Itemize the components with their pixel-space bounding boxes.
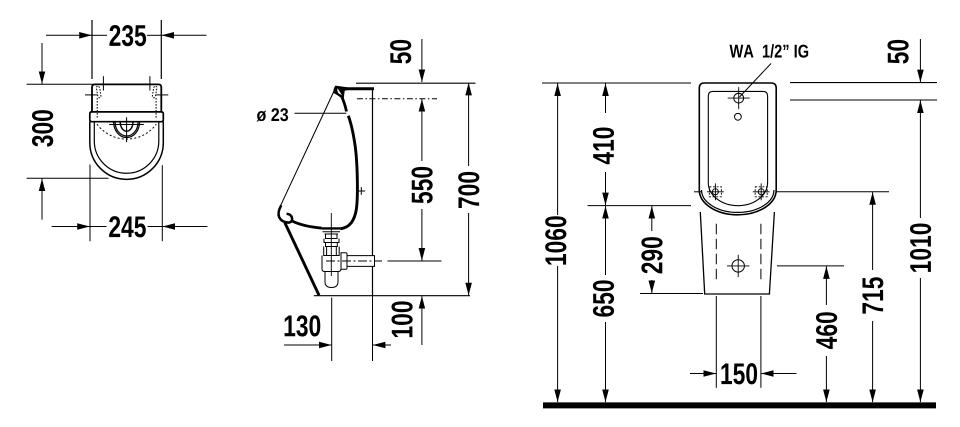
dim 235 arrow right (162, 34, 207, 36)
dim 235 inner line left (92, 34, 107, 36)
water inlet cross ticks (728, 87, 750, 109)
wall line (372, 89, 374, 296)
dim 715 arrow top (872, 192, 874, 270)
dim 50 label (right) (887, 40, 908, 64)
dim 245 inner line right (148, 226, 163, 228)
siphon lower cup (325, 272, 338, 288)
siphon flange lines (323, 232, 341, 234)
drain access cross ticks (727, 255, 749, 277)
top reference line right segment (790, 82, 937, 84)
mounting hole right ticks (753, 183, 770, 200)
bowl interior hidden arc (dashed) (97, 124, 156, 139)
dim 1010 arrow top (up to inlet line) (919, 100, 921, 218)
dim 410 label (593, 128, 614, 165)
mounting hole left circle (712, 189, 718, 195)
drain dome arc mid (115, 122, 138, 136)
dim 245 inner line left (90, 226, 107, 228)
drain centerline vertical (330, 213, 332, 276)
dim 1010 arrow bottom (919, 278, 921, 402)
bowl front bottom (thick) (292, 221, 322, 228)
inner bowl U (94, 122, 159, 174)
inner rim line (708, 91, 767, 205)
dim 290 label (641, 237, 662, 273)
dim 150 arrow left (690, 373, 716, 375)
front lip (thick hook) (279, 205, 293, 222)
290 bottom extension line (640, 293, 703, 295)
dim 150 arrow right (761, 373, 796, 375)
slot center tick horizontal left (85, 94, 98, 96)
dim 245 extension left (89, 165, 91, 242)
shroud hidden line left (dashed) (715, 224, 717, 283)
drain level extension line to 460 dim (777, 265, 844, 267)
WA leader line (740, 64, 772, 98)
drain dome arc small (120, 122, 133, 131)
dim 235 extension line right (160, 20, 162, 79)
drain access hole circle (732, 260, 744, 272)
dim 700 arrow top (468, 83, 470, 166)
dim ø23 leader (295, 112, 347, 114)
bowl back wall (thick, below inlet hole) (340, 116, 357, 229)
floor bar (543, 402, 936, 408)
dim 410 arrow top (605, 83, 607, 113)
dim 150 extension right (760, 296, 762, 388)
dim 1060 label (545, 216, 566, 264)
dim 245 arrow left (52, 226, 90, 228)
dim 130 arrow right (373, 344, 391, 346)
dim 550 arrow bottom (down to outlet CL) (421, 209, 423, 261)
rim lower edge arc (702, 190, 774, 212)
mounting hole left dashed box (709, 187, 721, 197)
mounting slot left (hidden, dotted) (96, 86, 101, 97)
WA 1/2 IG label (730, 44, 809, 58)
dim 235 inner line right (147, 34, 161, 36)
inlet level line right segment (790, 99, 937, 101)
dim 715 label (862, 277, 883, 313)
outlet centerline extension (388, 260, 442, 262)
mounting level tick left of body (694, 191, 702, 193)
drain dome arc outer (114, 122, 140, 138)
drain flange (thick) (322, 227, 341, 229)
water inlet crosshair circle (734, 93, 744, 103)
dim 550 arrow top (up to inlet line) (421, 99, 423, 161)
dim 460 arrow top (825, 266, 827, 305)
410/650 level extension line (588, 205, 692, 207)
outlet centerline dash-dot (326, 260, 382, 262)
urinal top surface (thick) (345, 87, 375, 90)
slot hidden line left (96, 98, 98, 118)
dim 50 arrow (down to top line) (421, 39, 423, 82)
dim 410 arrow bottom (605, 172, 607, 205)
slot center tick horizontal right (156, 94, 169, 96)
dim 300 extension bottom (27, 177, 109, 179)
mounting hole cross mark (357, 187, 365, 195)
outlet flange ring (341, 253, 347, 270)
dim 50 label (side) (390, 40, 411, 64)
drain crosshair vertical (126, 117, 128, 142)
mounting hole right circle (758, 189, 764, 195)
bottom reference line (314, 295, 470, 297)
drain crosshair horizontal (109, 124, 144, 126)
slot center tick vertical left (102, 76, 104, 90)
dim 245 label (109, 216, 146, 237)
mounting hole left ticks (707, 183, 724, 200)
dim 700 label (458, 172, 479, 208)
dim 550 label (411, 167, 432, 203)
top reference line left segment (542, 82, 691, 84)
dim 650 arrow top (605, 206, 607, 275)
dim 1010 label (910, 223, 931, 271)
top reference line (356, 82, 476, 84)
mounting level tick right of body + extension to 715 dim (777, 191, 890, 193)
inlet level dashed line (357, 98, 437, 100)
dim 150 label (721, 363, 757, 384)
underside slope (thick) (285, 223, 319, 296)
top view upper housing rect (92, 84, 161, 112)
dim 1060 arrow bottom (557, 266, 559, 402)
mounting slot right (hidden, dotted) (152, 86, 157, 97)
siphon bell cup (322, 256, 341, 272)
siphon union nut (324, 247, 340, 256)
dim 130 extension line (331, 298, 333, 362)
small hole below inlet (735, 113, 742, 120)
dim 130 wall extension (372, 296, 374, 361)
dim 100 arrow (up to bottom line) (421, 296, 423, 345)
dim 150 extension left (715, 296, 717, 388)
dim 100 label (391, 301, 412, 337)
dim 290 arrow bottom (651, 280, 653, 293)
dim 235 extension line left (91, 20, 93, 79)
spout lip (thick blob with notch) (333, 86, 347, 100)
dim 300 arrow top (down) (41, 43, 43, 84)
dim 300 arrow bottom (up) (41, 179, 43, 220)
bowl back wall upper (thick, above inlet hole) (342, 97, 347, 112)
dim 235 arrow left (46, 34, 92, 36)
mounting hole right dashed box (755, 187, 767, 197)
dim 235 label (109, 25, 146, 46)
bowl outer body (699, 83, 776, 215)
spout notch (white) (337, 88, 342, 95)
dim 130 label (285, 315, 321, 336)
dim 290 arrow top (651, 206, 653, 231)
dim 650 label (593, 280, 614, 316)
slot hidden line right (155, 98, 157, 118)
slot center tick vertical right (149, 76, 151, 90)
dim 460 arrow bottom (825, 356, 827, 402)
dim 245 arrow right (163, 226, 208, 228)
lower shroud body (700, 212, 774, 294)
outlet pipe (white filled) (347, 256, 375, 267)
dim 300 label (32, 110, 53, 147)
dim 715 arrow bottom (872, 321, 874, 402)
dim 130 arrow left (284, 344, 332, 346)
dim 50 arrow (down to top line) (919, 39, 921, 82)
outer bowl U (90, 122, 164, 180)
dim 1060 arrow top (557, 83, 559, 215)
dim 700 arrow bottom (468, 213, 470, 295)
dim 245 extension right (161, 165, 163, 241)
dim 460 label (816, 312, 837, 349)
dim ø23 label (257, 108, 289, 121)
front rim edge (thin diagonal) (280, 90, 335, 208)
dim 300 extension top (27, 83, 94, 85)
rim band (90, 112, 164, 122)
dim 650 arrow bottom (605, 322, 607, 402)
shroud hidden line right (dashed) (760, 224, 762, 283)
siphon neck rings (324, 234, 339, 247)
